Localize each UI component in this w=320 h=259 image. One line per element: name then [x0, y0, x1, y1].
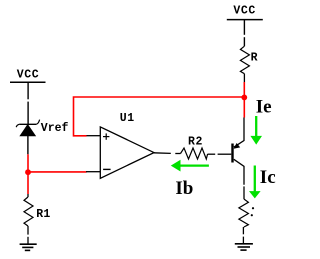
- transistor Q1 (PNP): [231, 143, 244, 185]
- svg-text:VCC: VCC: [17, 69, 40, 82]
- collector wire: [243, 186, 245, 199]
- power symbol VCC (right): [227, 5, 263, 35]
- wire: [243, 37, 245, 46]
- op-amp - input stub: [86, 171, 100, 173]
- svg-text:R1: R1: [36, 208, 50, 221]
- resistor R: [240, 46, 249, 73]
- svg-text:R2: R2: [188, 135, 203, 148]
- base wire from R2 to base: [218, 153, 232, 155]
- wire: [243, 74, 245, 82]
- svg-text:U1: U1: [120, 112, 135, 125]
- resistor R2: [181, 148, 208, 159]
- current arrow Ib (green, left): [171, 160, 209, 172]
- svg-text:Ic: Ic: [260, 167, 276, 188]
- power symbol VCC (left): [10, 69, 46, 100]
- node junction: [241, 95, 247, 101]
- ground (left): [20, 244, 37, 250]
- node junction: [25, 169, 31, 175]
- wire: [27, 102, 29, 125]
- svg-text:Vref: Vref: [41, 122, 69, 135]
- op-amp output wire: [154, 152, 171, 155]
- svg-text:Ie: Ie: [256, 96, 272, 117]
- wire (red): [243, 82, 245, 118]
- svg-text:R: R: [251, 52, 258, 65]
- feedback wire (red): from R/transistor node to + input: [74, 97, 245, 136]
- op-amp + input stub: [86, 135, 100, 137]
- ground (right): [235, 244, 253, 250]
- op-amp U1: [100, 127, 154, 178]
- current arrow Ic (green, down): [249, 166, 261, 199]
- svg-text:VCC: VCC: [233, 5, 256, 18]
- wire (red) to - input: [28, 171, 87, 173]
- wire (red): [27, 154, 29, 194]
- wire: [27, 136, 29, 154]
- zener diode Vref: [16, 120, 39, 136]
- wire emitter lead: [234, 118, 244, 148]
- wire: [242, 227, 244, 234]
- svg-text:Ib: Ib: [175, 178, 193, 199]
- resistor (collector, unlabeled): [239, 199, 254, 227]
- current arrow Ie (green, down): [250, 116, 262, 145]
- resistor R1: [24, 194, 33, 244]
